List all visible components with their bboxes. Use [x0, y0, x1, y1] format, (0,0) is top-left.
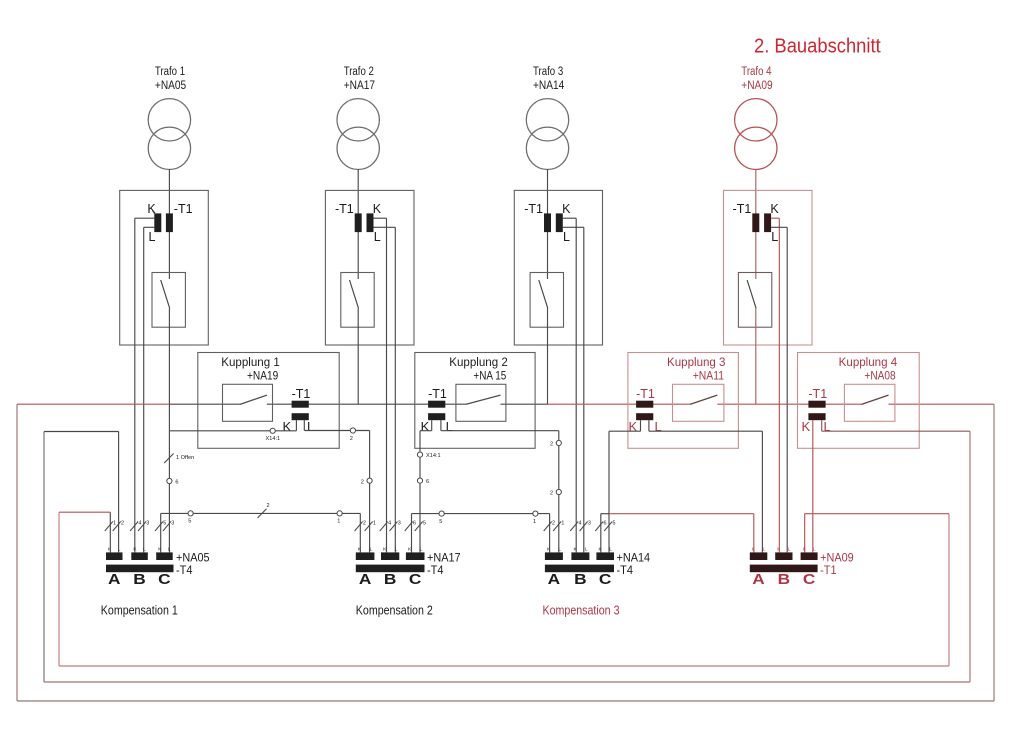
CT trafo1 labels — [147, 202, 192, 244]
svg-text:K: K — [158, 547, 162, 553]
svg-text:Kupplung 4: Kupplung 4 — [839, 357, 898, 369]
digit 3 comp1 B — [146, 521, 149, 527]
svg-text:6: 6 — [604, 521, 607, 527]
phase label C comp3 — [599, 572, 612, 588]
CT -T1 trafo1 bars — [154, 213, 173, 232]
label NA comp3 — [617, 550, 651, 564]
wire: Kupplung4 L stub — [821, 420, 823, 431]
label NA comp2 — [427, 550, 461, 564]
tiny K/L labels comp2 A — [358, 547, 373, 553]
wire: trafo4 feed upper — [755, 169, 757, 279]
wire: mid frame bottom rail — [44, 681, 970, 683]
wire: red frame left vertical — [16, 404, 18, 701]
wire: red comp4 C-K run right — [805, 513, 949, 515]
phase label B comp1 — [133, 572, 146, 588]
CT bar comp4 phase C — [801, 552, 818, 560]
tiny K/L labels comp4 C — [803, 547, 816, 553]
terminal 1 comp2 bus — [533, 511, 538, 516]
terminal X14:1 group2 — [417, 452, 422, 457]
label 6 group2 — [426, 479, 429, 485]
svg-text:3: 3 — [146, 521, 149, 527]
CT trafo2 labels — [335, 202, 382, 244]
svg-text:2. Bauabschnitt: 2. Bauabschnitt — [754, 35, 881, 58]
label X14:1 group1 — [266, 436, 281, 442]
svg-text:L: L — [609, 547, 612, 553]
transformer T4 symbol — [735, 99, 777, 170]
svg-text:Kupplung 2: Kupplung 2 — [449, 357, 508, 369]
svg-text:1: 1 — [373, 521, 376, 527]
svg-text:Kompensation 1: Kompensation 1 — [101, 604, 178, 618]
CT -T1 Kupplung 4 label — [808, 387, 827, 401]
svg-text:L: L — [585, 547, 588, 553]
switch blade Kupplung 2 — [466, 395, 501, 404]
svg-text:2: 2 — [363, 521, 366, 527]
CT bar comp1 phase A — [106, 552, 123, 560]
tiny K/L labels comp1 B — [133, 547, 146, 553]
terminal 1 comp1 bus — [337, 511, 342, 516]
svg-text:+NA11: +NA11 — [693, 371, 724, 383]
tiny K/L labels comp3 B — [574, 547, 588, 553]
svg-text:X14:1: X14:1 — [426, 453, 441, 459]
wire: K3-K down to comp3 C-L — [608, 431, 610, 552]
wire: K3-L down to comp4 A-L — [761, 431, 763, 552]
wire: inner frame left vertical — [58, 512, 60, 666]
wire: Kupplung2 K stub — [420, 420, 432, 431]
label T4 comp3 — [617, 563, 634, 577]
svg-text:+NA08: +NA08 — [864, 371, 895, 383]
wire: Kupplung3 K stub — [640, 420, 642, 431]
svg-text:+NA17: +NA17 — [427, 550, 461, 564]
wire: Kupplung1 K stub — [295, 420, 297, 431]
wire: comp2 bus drop to comp3 A-K — [549, 514, 551, 553]
switch box Kupplung 1 — [223, 384, 273, 421]
wire: red bus K3 to K4 switch — [717, 403, 861, 405]
svg-text:X14:1: X14:1 — [266, 436, 281, 442]
busbar comp1 -T4 — [106, 565, 174, 573]
svg-text:-T1: -T1 — [335, 202, 354, 216]
svg-text:K: K — [574, 547, 578, 553]
switch box Kupplung 4 — [844, 384, 895, 421]
svg-text:Trafo 1: Trafo 1 — [155, 66, 185, 78]
svg-text:L: L — [370, 547, 373, 553]
label NA comp4 — [820, 550, 854, 564]
CT -T1 Kupplung 3 bars — [636, 401, 653, 421]
svg-text:4: 4 — [138, 521, 141, 527]
label 5 comp2 bus — [439, 519, 442, 525]
phase label A comp2 — [359, 572, 372, 588]
CT bar comp3 phase A — [545, 552, 563, 560]
link switch comp2 C-K — [405, 522, 413, 532]
svg-text:2: 2 — [350, 436, 353, 442]
transformer T1 symbol — [148, 99, 190, 170]
link switch comp1 B-K — [130, 522, 138, 532]
cubicle box trafo 4 — [724, 190, 813, 345]
svg-text:3: 3 — [171, 521, 174, 527]
CT bar comp4 phase A — [750, 552, 768, 560]
CT -T1 Kupplung 2 label — [428, 387, 447, 401]
wire: Kupplung2 L stub — [440, 420, 442, 431]
wire: K2-L down to comp3 A-L — [558, 431, 560, 553]
svg-text:A: A — [752, 572, 765, 588]
svg-text:5: 5 — [423, 521, 426, 527]
wire: trafo4 K tap — [771, 218, 779, 552]
wire: comp3 C-K stub — [601, 513, 609, 515]
svg-text:L: L — [374, 230, 381, 244]
CT -T1 Kupplung 2 bars — [428, 401, 445, 421]
transformer T3 symbol — [526, 99, 568, 170]
label 2 K1 L-run — [350, 436, 353, 442]
svg-text:2: 2 — [361, 479, 364, 485]
CT bar comp2 phase B — [381, 552, 399, 560]
terminal X14:1 group1 — [270, 428, 275, 433]
label X14:1 group2 — [426, 453, 441, 459]
label 6 group1 — [175, 480, 178, 486]
label Kompensation 2 — [356, 604, 433, 618]
svg-text:A: A — [548, 572, 561, 588]
wire: red bus trafo3 to K3 switch — [548, 403, 691, 405]
transformer T2 symbol — [337, 99, 379, 170]
box Kupplung 3 — [628, 353, 739, 449]
digit 3 comp3 B — [588, 521, 591, 527]
svg-text:B: B — [384, 572, 397, 588]
svg-text:K: K — [421, 419, 430, 434]
svg-text:L: L — [168, 547, 171, 553]
wire: comp3 C-K drop — [600, 514, 602, 553]
svg-text:+NA14: +NA14 — [533, 80, 565, 92]
svg-text:-T1: -T1 — [820, 563, 837, 577]
wire: red link to comp1 A-K — [59, 511, 110, 513]
wire: comp1 A-K drop — [109, 512, 111, 552]
link switch comp2 A-K — [355, 522, 363, 532]
CT -T1 trafo3 bars — [544, 213, 563, 232]
svg-text:K: K — [283, 419, 292, 434]
phase label B comp2 — [384, 572, 397, 588]
digit 6 comp2 C — [413, 521, 416, 527]
label Kompensation 3 — [543, 604, 620, 618]
label L Kupplung3 — [655, 419, 662, 434]
box Kupplung 4 — [798, 353, 920, 449]
svg-text:5: 5 — [188, 519, 191, 525]
svg-text:K: K — [147, 202, 156, 216]
wire: trafo3 K tap — [563, 218, 576, 552]
label 2 upper K2-L — [550, 442, 553, 448]
wire: trafo2 feed lower — [357, 308, 359, 404]
svg-text:6: 6 — [426, 479, 429, 485]
digit 4 comp3 B — [579, 521, 582, 527]
label Trafo 1 — [155, 66, 186, 92]
tiny K/L labels comp4 A — [752, 547, 766, 553]
tiny K/L labels comp4 B — [777, 547, 791, 553]
wire: trafo3 feed upper — [547, 169, 549, 279]
digit 2 comp3 A — [552, 521, 555, 527]
wire: red link comp3 to comp4 A-K — [609, 513, 754, 515]
svg-text:K: K — [373, 202, 382, 216]
svg-text:-T1: -T1 — [733, 202, 752, 216]
breaker box trafo4 — [738, 273, 771, 328]
svg-text:C: C — [803, 572, 816, 588]
wire: trafo3 L tap — [563, 227, 584, 552]
svg-text:K: K — [802, 419, 811, 434]
wire: trafo3 feed lower — [547, 308, 549, 404]
digit 4 comp2 B — [388, 521, 391, 527]
terminal 2 upper on K2-L drop — [556, 440, 561, 445]
CT -T1 Kupplung 1 label — [292, 387, 311, 401]
wire: trafo1 feed upper — [168, 169, 170, 279]
svg-text:L: L — [558, 547, 561, 553]
wire: trafo2 K tap — [374, 218, 387, 552]
digit 5 comp2 C — [423, 521, 426, 527]
svg-text:Kupplung 1: Kupplung 1 — [221, 357, 280, 369]
svg-text:C: C — [599, 572, 612, 588]
CT bar comp1 phase B — [131, 552, 148, 560]
svg-text:C: C — [409, 572, 422, 588]
phase label B comp3 — [574, 572, 587, 588]
terminal 5 comp1 bus — [188, 511, 193, 516]
wire: comp1 A-L drop — [118, 432, 120, 553]
label K Kupplung3 — [629, 419, 638, 434]
digit 3 comp2 B — [398, 521, 401, 527]
wire: Kupplung4 K drop to comp4 C-L — [812, 420, 814, 552]
tiny K/L labels comp2 B — [383, 547, 398, 553]
wire: trafo2 feed upper — [357, 169, 359, 279]
label 2 comp1 bus — [267, 503, 270, 509]
svg-text:4: 4 — [579, 521, 582, 527]
digit 6 comp3 C — [604, 521, 607, 527]
link switch comp2 B-K — [380, 522, 388, 532]
wire: red bus left segment — [17, 403, 169, 405]
svg-text:1: 1 — [113, 521, 116, 527]
svg-text:4: 4 — [388, 521, 391, 527]
svg-text:+NA05: +NA05 — [155, 80, 186, 92]
digit 4 comp1 B — [138, 521, 141, 527]
CT trafo3 labels — [524, 202, 571, 244]
box Kupplung 2 — [415, 353, 535, 449]
CT bar comp3 phase B — [571, 552, 589, 560]
label 5 comp1 bus — [188, 519, 191, 525]
svg-text:Trafo 4: Trafo 4 — [741, 66, 772, 78]
CT -T1 Kupplung 1 bars — [292, 401, 309, 421]
wire: mid frame right vertical — [969, 431, 971, 682]
svg-text:1: 1 — [561, 521, 564, 527]
wire: trafo2 L tap — [374, 227, 396, 552]
terminal 6 group2 — [417, 478, 422, 483]
busbar comp3 -T4 — [545, 565, 614, 573]
link switch comp1 A-L — [113, 522, 121, 532]
box Kupplung 1 — [198, 353, 339, 449]
tiny K/L labels comp2 C — [408, 547, 423, 553]
CT bar comp3 phase C — [596, 552, 614, 560]
wire: trafo1 feed to X14:1 to K1-K — [169, 430, 296, 432]
switch blade Kupplung 4 — [862, 395, 889, 404]
svg-text:2: 2 — [550, 491, 553, 497]
phase label A comp3 — [548, 572, 561, 588]
label K Kupplung4 — [802, 419, 811, 434]
wire: red drop comp4 A-K — [753, 514, 755, 553]
svg-text:+NA09: +NA09 — [741, 80, 772, 92]
phase label B comp4 — [778, 572, 791, 588]
svg-text:+NA14: +NA14 — [617, 550, 651, 564]
terminal 2 on K1-L drop — [367, 478, 372, 483]
svg-text:5: 5 — [163, 521, 166, 527]
link switch comp3 C-K — [595, 522, 603, 532]
wire: comp2 link bus — [412, 513, 550, 515]
CT bar comp1 phase C — [156, 552, 173, 560]
digit 2 comp1 A — [121, 521, 124, 527]
breaker box trafo3 — [530, 273, 563, 328]
svg-text:L: L — [771, 230, 778, 244]
svg-text:-T1: -T1 — [292, 387, 311, 401]
svg-text:L: L — [446, 419, 453, 434]
svg-text:2: 2 — [121, 521, 124, 527]
wire: comp1 link bus — [161, 512, 361, 514]
svg-text:+NA19: +NA19 — [247, 371, 278, 383]
wire: trafo1 feed below junction — [168, 431, 170, 553]
svg-text:5: 5 — [439, 519, 442, 525]
label L Kupplung2 — [446, 419, 453, 434]
digit 3 comp1 C — [171, 521, 174, 527]
breaker box trafo2 — [341, 273, 374, 328]
label 1 comp1 bus — [337, 519, 340, 525]
svg-text:L: L — [307, 419, 314, 434]
wire: red frame right vertical — [993, 404, 995, 701]
wire: mid frame left vertical — [43, 432, 45, 683]
label T4 comp4 — [820, 563, 837, 577]
link switch comp1 C-K — [155, 522, 163, 532]
CT trafo4 labels — [733, 202, 780, 244]
label Trafo 4 — [741, 66, 772, 92]
svg-text:B: B — [778, 572, 791, 588]
link switch comp2 A-L — [365, 522, 373, 532]
digit 2 comp2 A — [363, 521, 366, 527]
svg-text:L: L — [420, 547, 423, 553]
svg-text:-T1: -T1 — [636, 387, 655, 401]
svg-text:+NA05: +NA05 — [176, 550, 210, 564]
svg-text:Kompensation 2: Kompensation 2 — [356, 604, 433, 618]
breaker box trafo1 — [152, 273, 185, 328]
CT bar comp2 phase A — [356, 552, 375, 560]
link switch comp1 B-L — [138, 522, 146, 532]
wire: K1-L down to comp2 A-L — [369, 431, 371, 553]
link switch comp2 B-L — [390, 522, 398, 532]
digit 1 comp3 A — [561, 521, 564, 527]
CT bar comp4 phase B — [775, 552, 792, 560]
wire: trafo1 K tap — [135, 218, 155, 552]
svg-text:Kompensation 3: Kompensation 3 — [543, 604, 620, 618]
terminal 6 group1 — [167, 478, 172, 483]
label Trafo 2 — [344, 66, 375, 92]
svg-text:B: B — [574, 572, 587, 588]
link switch comp3 B-K — [570, 522, 578, 532]
link switch comp3 A-L — [553, 522, 561, 532]
svg-text:L: L — [788, 547, 791, 553]
svg-text:L: L — [563, 230, 570, 244]
wire: comp2 C-K drop — [411, 514, 413, 553]
label Kupplung 4 — [839, 357, 898, 383]
svg-text:-T1: -T1 — [808, 387, 827, 401]
busbar comp4 -T1 — [750, 565, 818, 573]
svg-text:Trafo 3: Trafo 3 — [533, 66, 563, 78]
wire: trafo1 L tap — [144, 227, 155, 552]
svg-text:6: 6 — [413, 521, 416, 527]
title 2. Bauabschnitt — [754, 35, 881, 58]
wire: comp1 bus drop to comp2 A-K — [359, 513, 361, 552]
wire: Kupplung3 K run left — [609, 430, 641, 432]
wire: black bus K1 switch to K2 switch — [267, 403, 466, 405]
svg-text:K: K — [803, 547, 807, 553]
label L Kupplung4 — [824, 419, 831, 434]
label L Kupplung1 — [307, 419, 314, 434]
wire: Kupplung3 L run right — [649, 430, 763, 432]
terminal 5 comp2 bus — [439, 511, 444, 516]
svg-text:-T1: -T1 — [174, 202, 193, 216]
wire: red comp4 C-K drop — [804, 514, 806, 553]
svg-text:A: A — [108, 572, 121, 588]
switch 2 comp1 bus — [258, 509, 267, 518]
wire: red bus K4 switch to right frame — [889, 403, 995, 405]
phase label C comp4 — [803, 572, 816, 588]
link switch comp3 B-L — [580, 522, 588, 532]
svg-text:1: 1 — [337, 519, 340, 525]
svg-text:A: A — [359, 572, 372, 588]
svg-text:K: K — [599, 547, 603, 553]
wire: trafo4 L tap — [771, 227, 787, 552]
svg-text:6: 6 — [175, 480, 178, 486]
wire: inner frame bottom rail — [59, 665, 949, 667]
link switch comp2 C-L — [415, 522, 423, 532]
svg-text:+NA17: +NA17 — [344, 80, 375, 92]
label Kupplung 2 — [449, 357, 508, 383]
svg-text:B: B — [133, 572, 146, 588]
svg-text:2: 2 — [267, 503, 270, 509]
svg-text:L: L — [149, 230, 156, 244]
label K Kupplung2 — [421, 419, 430, 434]
svg-text:L: L — [813, 547, 816, 553]
svg-text:-T4: -T4 — [427, 563, 444, 577]
wire: Kupplung1 L stub — [303, 420, 305, 430]
cubicle box trafo 1 — [120, 190, 209, 345]
breaker blade trafo3 — [539, 280, 548, 308]
terminal 2 lower on K2-L drop — [556, 489, 561, 494]
cubicle box trafo 2 — [325, 190, 414, 345]
wire: comp1 C-K drop — [160, 513, 162, 552]
breaker blade trafo1 — [161, 280, 170, 308]
label Trafo 3 — [533, 66, 565, 92]
tiny K/L labels comp3 C — [599, 547, 613, 553]
phase label C comp1 — [158, 572, 171, 588]
digit 5 comp1 C — [163, 521, 166, 527]
tiny K/L labels comp3 A — [547, 547, 561, 553]
svg-text:3: 3 — [398, 521, 401, 527]
busbar comp2 -T4 — [356, 565, 425, 573]
label 1 comp2 bus — [533, 519, 536, 525]
svg-text:Trafo 2: Trafo 2 — [344, 66, 374, 78]
svg-text:3: 3 — [588, 521, 591, 527]
label Kupplung 3 — [667, 357, 726, 383]
label 1 Offen — [176, 455, 194, 461]
svg-text:K: K — [562, 202, 571, 216]
breaker blade trafo4 — [747, 280, 756, 308]
svg-text:C: C — [158, 572, 171, 588]
svg-text:K: K — [777, 547, 781, 553]
CT bar comp2 phase C — [406, 552, 425, 560]
svg-text:+NA09: +NA09 — [820, 550, 854, 564]
digit 1 comp1 A — [113, 521, 116, 527]
svg-text:1: 1 — [533, 519, 536, 525]
svg-text:2: 2 — [550, 442, 553, 448]
terminal 2 on K1 L-run — [350, 428, 355, 433]
tiny K/L labels comp1 A — [108, 547, 121, 553]
link switch comp1 A-K — [105, 522, 113, 532]
